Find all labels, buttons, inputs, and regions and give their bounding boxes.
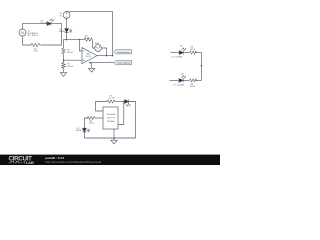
wire R3 left corner down [84, 118, 88, 128]
svg-text:1/100kHz: 1/100kHz [107, 121, 115, 123]
svg-text:100 kΩ: 100 kΩ [67, 66, 74, 68]
resistor R5 [62, 60, 65, 69]
svg-text:Probe negative: Probe negative [117, 62, 131, 65]
wire D4 to right corner [41, 24, 62, 45]
svg-text:http://circuitlab.com/c/8wq3kc: http://circuitlab.com/c/8wq3kc38cqpvwe8 [45, 160, 101, 164]
wire junction left to divider [64, 40, 67, 48]
flag probe negative [114, 61, 132, 65]
wire V1 top to right [67, 12, 113, 52]
node ground wire [89, 62, 91, 64]
flag probe positive [114, 50, 132, 54]
bottom wire [84, 137, 135, 139]
node junction [66, 39, 68, 41]
wire R4 to node [63, 54, 65, 60]
wire stub left [170, 79, 179, 81]
ground (block) [111, 138, 117, 144]
wire R7 to LED node [115, 101, 125, 103]
svg-text:4.7 kΩ: 4.7 kΩ [109, 98, 115, 100]
LED D4 [47, 22, 51, 26]
svg-text:D6: D6 [181, 74, 185, 76]
svg-text:VOUT 5V: VOUT 5V [107, 118, 116, 120]
svg-text:LTL-4228: LTL-4228 [41, 22, 49, 24]
LED D5 [179, 51, 183, 55]
wire divider mid to op-amp + input [64, 59, 83, 61]
svg-text:100 kΩ: 100 kΩ [67, 52, 74, 54]
IC box [103, 107, 118, 129]
svg-text:LTL-4223BN: LTL-4223BN [172, 56, 183, 58]
wire D5 to R8 [183, 52, 189, 54]
wire box right pin up to D1 node [118, 102, 124, 125]
LED D3 [83, 128, 87, 132]
LED D2 [65, 29, 69, 33]
resistor R7 [107, 100, 115, 103]
LED D1 [125, 100, 129, 104]
voltage source V1 [63, 12, 70, 19]
svg-text:LAB: LAB [26, 160, 34, 165]
wire box pin2 to R3 [95, 117, 103, 119]
node mid right [201, 65, 203, 67]
voltage source V2 [19, 29, 26, 36]
wire R5 to ground [63, 69, 65, 72]
svg-text:660NM: 660NM [76, 130, 82, 132]
svg-text:660NM: 660NM [59, 31, 66, 33]
output wire [97, 52, 113, 56]
svg-text:ReadVolts: ReadVolts [107, 113, 116, 116]
wire stub left [171, 52, 180, 54]
LED D6 [179, 79, 183, 83]
ground (op-amp) [89, 63, 95, 72]
resistor R8 [189, 51, 197, 54]
wire box pin1 to R7 [96, 102, 107, 112]
wire R2 to V2 bottom [23, 36, 32, 45]
resistor R3 [87, 117, 95, 120]
wire D1 right down [129, 102, 136, 139]
wire R8 to corner, vertical [195, 53, 201, 81]
resistor R4 [62, 48, 65, 55]
svg-text:10 kΩ: 10 kΩ [85, 38, 91, 40]
svg-text:LTL-4223BN: LTL-4223BN [174, 85, 185, 87]
svg-text:330 Ω: 330 Ω [190, 86, 196, 88]
node output [106, 55, 108, 57]
svg-text:56 Ω: 56 Ω [34, 51, 39, 53]
wire box bottom pin [113, 129, 115, 138]
node output-flag [112, 55, 114, 57]
svg-text:LM741: LM741 [85, 56, 91, 58]
svg-text:5V: 5V [60, 16, 63, 18]
resistor R9 [189, 79, 197, 82]
wire R6 to ammeter [93, 40, 95, 48]
svg-text:AM1: AM1 [95, 42, 100, 45]
node bottom [113, 137, 115, 139]
node divider mid [63, 59, 65, 61]
wire D3 to bottom [83, 132, 85, 138]
wire down to - input [80, 40, 83, 51]
op-amp OA1 [82, 48, 97, 64]
ground (divider) [60, 73, 66, 77]
node feedback [79, 39, 81, 41]
wire V1 bottom [66, 18, 68, 28]
wire ammeter to output node [101, 48, 106, 56]
node D1 [123, 101, 125, 103]
wire D6 to R9 [183, 79, 189, 81]
svg-text:330 Ω: 330 Ω [190, 49, 196, 51]
bottom ground wire [90, 62, 114, 64]
logo waveform [9, 161, 23, 163]
svg-text:5V 1 MS 1k: 5V 1 MS 1k [27, 35, 39, 37]
ammeter AM1 [95, 45, 102, 52]
svg-text:Probe positive: Probe positive [117, 51, 131, 54]
wire V2 top [23, 24, 48, 29]
resistor R2 [30, 43, 41, 46]
svg-text:D5: D5 [180, 46, 184, 48]
wire junction right to feedback node [67, 39, 84, 41]
wire R9 to corner [195, 79, 201, 81]
resistor R6 [84, 38, 92, 41]
svg-text:100 Ω: 100 Ω [89, 123, 95, 125]
wire D2 to junction [66, 32, 68, 39]
